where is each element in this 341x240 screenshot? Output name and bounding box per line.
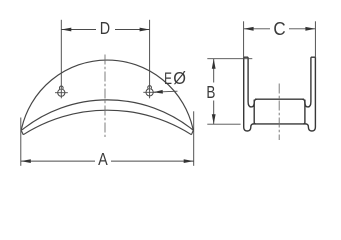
svg-text:Ø: Ø <box>173 69 186 88</box>
svg-text:D: D <box>100 20 110 39</box>
svg-text:A: A <box>98 150 108 170</box>
svg-text:E: E <box>164 70 172 89</box>
svg-text:B: B <box>206 83 215 102</box>
svg-text:C: C <box>273 18 285 39</box>
